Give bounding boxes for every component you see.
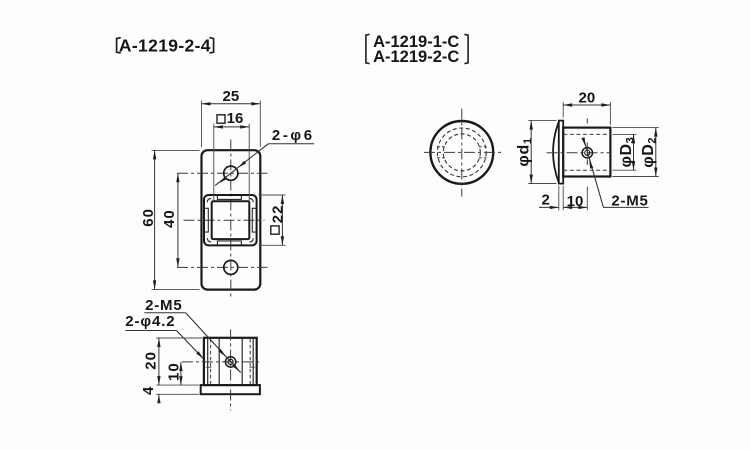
side view hole horizontal centerline: [182, 361, 262, 363]
leader 2-phi4.2 arrow: [196, 351, 203, 359]
leader 2-M5 arrow at thread: [218, 349, 225, 357]
dimension sq22 arrow bottom: [281, 236, 284, 245]
square socket corner mark top-right: [249, 198, 253, 202]
dimension 60 extension line bottom: [152, 288, 200, 290]
side view hidden line right: [249, 339, 251, 385]
dimension sq16 square symbol: [217, 115, 225, 123]
dimension 25 line: [202, 103, 261, 105]
dimension phiD3 line: [633, 134, 635, 170]
cap view hole vertical centerline: [586, 119, 588, 166]
dimension 20 extension line bottom (side view): [156, 384, 199, 386]
svg-text:20: 20: [579, 89, 596, 106]
side view hidden tick right: [249, 366, 255, 368]
square socket left edge ledge: [205, 208, 209, 232]
dimension sq16 arrow right: [240, 125, 249, 128]
cap body outline: [563, 128, 610, 177]
title bracket right of A-1219-2-4: [209, 38, 213, 54]
svg-text:4: 4: [140, 386, 157, 395]
cap M5 inner circle: [585, 150, 590, 155]
dimension 25 arrow right: [251, 102, 260, 105]
svg-text:2-M5: 2-M5: [611, 192, 648, 209]
cap M5 thread circle: [582, 148, 592, 158]
dimension phid1 extension line bottom: [528, 183, 556, 185]
label text 2-M5 right: [611, 192, 648, 209]
dimension 10 line (side view): [180, 362, 182, 385]
leader 2-phi6 tail arrow: [219, 176, 227, 183]
dimension 25 extension line left: [201, 101, 203, 148]
dimension text phiD3: [618, 137, 637, 168]
side view inner edge line right outer: [252, 339, 254, 385]
title bracket right of A-1219-C list: [464, 34, 468, 63]
dimension text sq22: [269, 205, 286, 235]
dimension 25 arrow left: [202, 102, 211, 105]
dimension 10 line (cap): [563, 206, 587, 208]
dimension 60 extension line top: [152, 149, 200, 151]
side view inner edge line right: [241, 339, 243, 385]
top hole centerline: [177, 172, 268, 174]
bottom hole 2-phi6: [224, 260, 238, 274]
leader 2-phi6 arrow at hole rim: [238, 161, 246, 168]
hidden M5 side hole left top: [437, 146, 445, 148]
dimension 20 arrow left (cap): [563, 103, 572, 106]
square socket inner hole sq16: [212, 201, 250, 239]
leader line 2-M5 right: [584, 138, 604, 207]
dimension sq22 arrow top: [281, 195, 284, 204]
dimension 10 extension line (cap): [586, 187, 588, 211]
cap view horizontal centerline: [547, 152, 611, 154]
label text 2-phi4.2: [125, 313, 175, 330]
dimension phid1 line: [530, 121, 532, 184]
leader line 2-phi4.2: [177, 331, 204, 359]
hidden M5 side hole left bottom: [437, 157, 445, 159]
dimension phiD2 line: [655, 128, 657, 177]
dimension text 4: [140, 386, 157, 395]
svg-text:10: 10: [165, 362, 182, 381]
round cap outer circle: [430, 121, 493, 184]
vertical centerline of plate: [230, 140, 232, 299]
dimension phiD2 extension line bottom: [612, 176, 658, 178]
leader line 2-phi6: [215, 144, 268, 186]
dimension 10 arrow left (cap): [563, 206, 572, 209]
title text A-1219-2-C: [373, 48, 459, 66]
dimension phiD3 arrow bottom: [632, 161, 635, 170]
svg-text:22: 22: [269, 205, 286, 224]
top hole 2-phi6: [224, 166, 238, 180]
bottom hole centerline: [177, 266, 268, 268]
dimension 20 extension line right (cap): [609, 102, 611, 125]
dimension 60 line: [154, 150, 156, 289]
dimension text 25: [223, 88, 240, 105]
side view hidden line left: [210, 339, 212, 385]
leader 2-M5 right lower arrow: [589, 160, 593, 169]
label text 2-phi6: [272, 127, 315, 144]
svg-text:2: 2: [542, 192, 550, 209]
square socket horizontal centerline: [184, 219, 265, 221]
label 2-M5 underline right: [603, 206, 648, 208]
dimension 20 extension line left (cap): [562, 102, 564, 118]
square socket corner mark bottom-left: [207, 238, 211, 242]
dimension text 10 (side view): [165, 362, 182, 381]
dimension 25 extension line right: [259, 101, 261, 148]
dimension sq22 line: [281, 195, 283, 245]
dimension text phiD2: [640, 137, 659, 168]
hidden M5 side hole right top: [479, 146, 487, 148]
round view vertical centerline: [461, 109, 463, 197]
square socket right edge ledge: [252, 208, 256, 232]
square socket corner mark bottom-right: [249, 238, 253, 242]
side view vertical centerline: [230, 330, 232, 411]
dimension 4 outside arrow: [157, 394, 160, 403]
side view body outline: [204, 338, 257, 385]
dimension phid1 arrow top: [530, 121, 533, 130]
title text A-1219-1-C: [373, 33, 459, 51]
dimension text 16: [227, 110, 244, 127]
dimension text 20 (side view): [142, 351, 159, 370]
svg-text:60: 60: [140, 208, 157, 227]
dimension text 20 (cap): [579, 89, 596, 106]
cap dome arc: [553, 121, 559, 182]
svg-text:16: 16: [227, 110, 244, 127]
svg-text:20: 20: [142, 351, 159, 370]
dimension phiD2 arrow bottom: [654, 168, 657, 177]
square socket corner mark top-left: [207, 198, 211, 202]
side view hidden tick left: [206, 366, 212, 368]
leader 2-M5 tail arrow: [232, 364, 239, 372]
dimension 20 arrow right (cap): [601, 103, 610, 106]
dimension 40 arrow bottom: [176, 258, 179, 267]
label 2-M5 underline left: [144, 312, 185, 314]
round cap hidden circle phiD3: [443, 134, 480, 171]
dimension 20 line (side view): [158, 338, 160, 385]
dimension 20 extension line top (side view): [156, 337, 202, 339]
title bracket left of A-1219-2-4: [117, 38, 121, 54]
dimension phiD2 arrow top: [654, 128, 657, 137]
dimension phiD3 arrow top: [632, 134, 635, 143]
dimension 60 arrow bottom: [153, 280, 156, 289]
svg-text:2-M5: 2-M5: [145, 297, 182, 314]
dimension 10 arrow bottom (side view): [179, 376, 182, 385]
dimension text phid1: [516, 137, 535, 166]
dimension 4 extension line bottom: [156, 393, 199, 395]
label 2-phi4.2 underline: [125, 330, 176, 332]
dimension phid1 arrow bottom: [530, 175, 533, 184]
dimension sq16 line: [214, 126, 249, 128]
dimension sq16 arrow left: [214, 125, 223, 128]
cap body hidden bore bottom: [563, 169, 610, 171]
dimension 60 arrow top: [153, 150, 156, 159]
square socket outer outline sq22: [204, 195, 257, 245]
title bracket left of A-1219-C list: [366, 34, 370, 63]
square socket top edge ledge: [217, 196, 241, 200]
side view inner edge line left outer: [207, 339, 209, 385]
cap rim rectangle: [559, 121, 563, 184]
dimension 2 extension line right: [562, 186, 564, 211]
svg-text:10: 10: [567, 193, 584, 210]
dimension phiD3 extension line bottom: [612, 169, 636, 171]
dimension 20 line (cap): [563, 104, 610, 106]
label text 2-M5 left: [145, 297, 182, 314]
side hole M5 thread circle: [225, 357, 235, 367]
title text A-1219-2-4: [119, 36, 211, 56]
dimension text 40: [161, 209, 178, 228]
plate body outline: [202, 150, 261, 289]
leader line 2-M5 left: [186, 313, 241, 373]
dimension text 10 (cap): [567, 193, 584, 210]
dimension text 60: [140, 208, 157, 227]
dimension 2 extension line left: [558, 186, 560, 211]
round cap hidden circle phiD2: [437, 128, 486, 177]
dimension 10 arrow right (cap): [578, 206, 587, 209]
dimension 2 line with outside arrow: [539, 206, 559, 209]
svg-text:2-φ4.2: 2-φ4.2: [125, 313, 175, 330]
hidden M5 side hole right bottom: [479, 157, 487, 159]
dimension 10 arrow top (side view): [179, 362, 182, 371]
svg-text:A-1219-2-C: A-1219-2-C: [373, 48, 459, 66]
leader 2-M5 right upper arrow: [581, 137, 585, 146]
side view flange: [201, 385, 260, 394]
svg-text:2-φ6: 2-φ6: [272, 127, 315, 144]
svg-text:A-1219-2-4: A-1219-2-4: [119, 36, 211, 56]
side hole M5 inner circle: [228, 359, 233, 364]
dimension phiD3 extension line top: [612, 133, 636, 135]
label 2-phi6 underline: [268, 143, 314, 145]
dimension sq16 extension line right: [248, 124, 250, 201]
square socket bottom edge ledge: [217, 241, 241, 245]
dimension phiD2 extension line top: [612, 127, 658, 129]
dimension 40 line: [177, 173, 179, 267]
dimension 20 arrow bottom (side view): [157, 376, 160, 385]
dimension sq16 extension line left: [213, 124, 215, 201]
round view horizontal centerline: [424, 151, 503, 153]
dimension text 2: [542, 192, 550, 209]
svg-text:40: 40: [161, 209, 178, 228]
svg-text:25: 25: [223, 88, 240, 105]
dimension sq22 extension line top: [259, 194, 286, 196]
dimension sq22 extension line bottom: [259, 244, 286, 246]
side view inner edge line left: [218, 339, 220, 385]
dimension phid1 extension line top: [528, 120, 556, 122]
dimension 40 arrow top: [176, 173, 179, 182]
dimension 20 arrow top (side view): [157, 338, 160, 347]
cap body hidden bore top: [563, 133, 610, 135]
